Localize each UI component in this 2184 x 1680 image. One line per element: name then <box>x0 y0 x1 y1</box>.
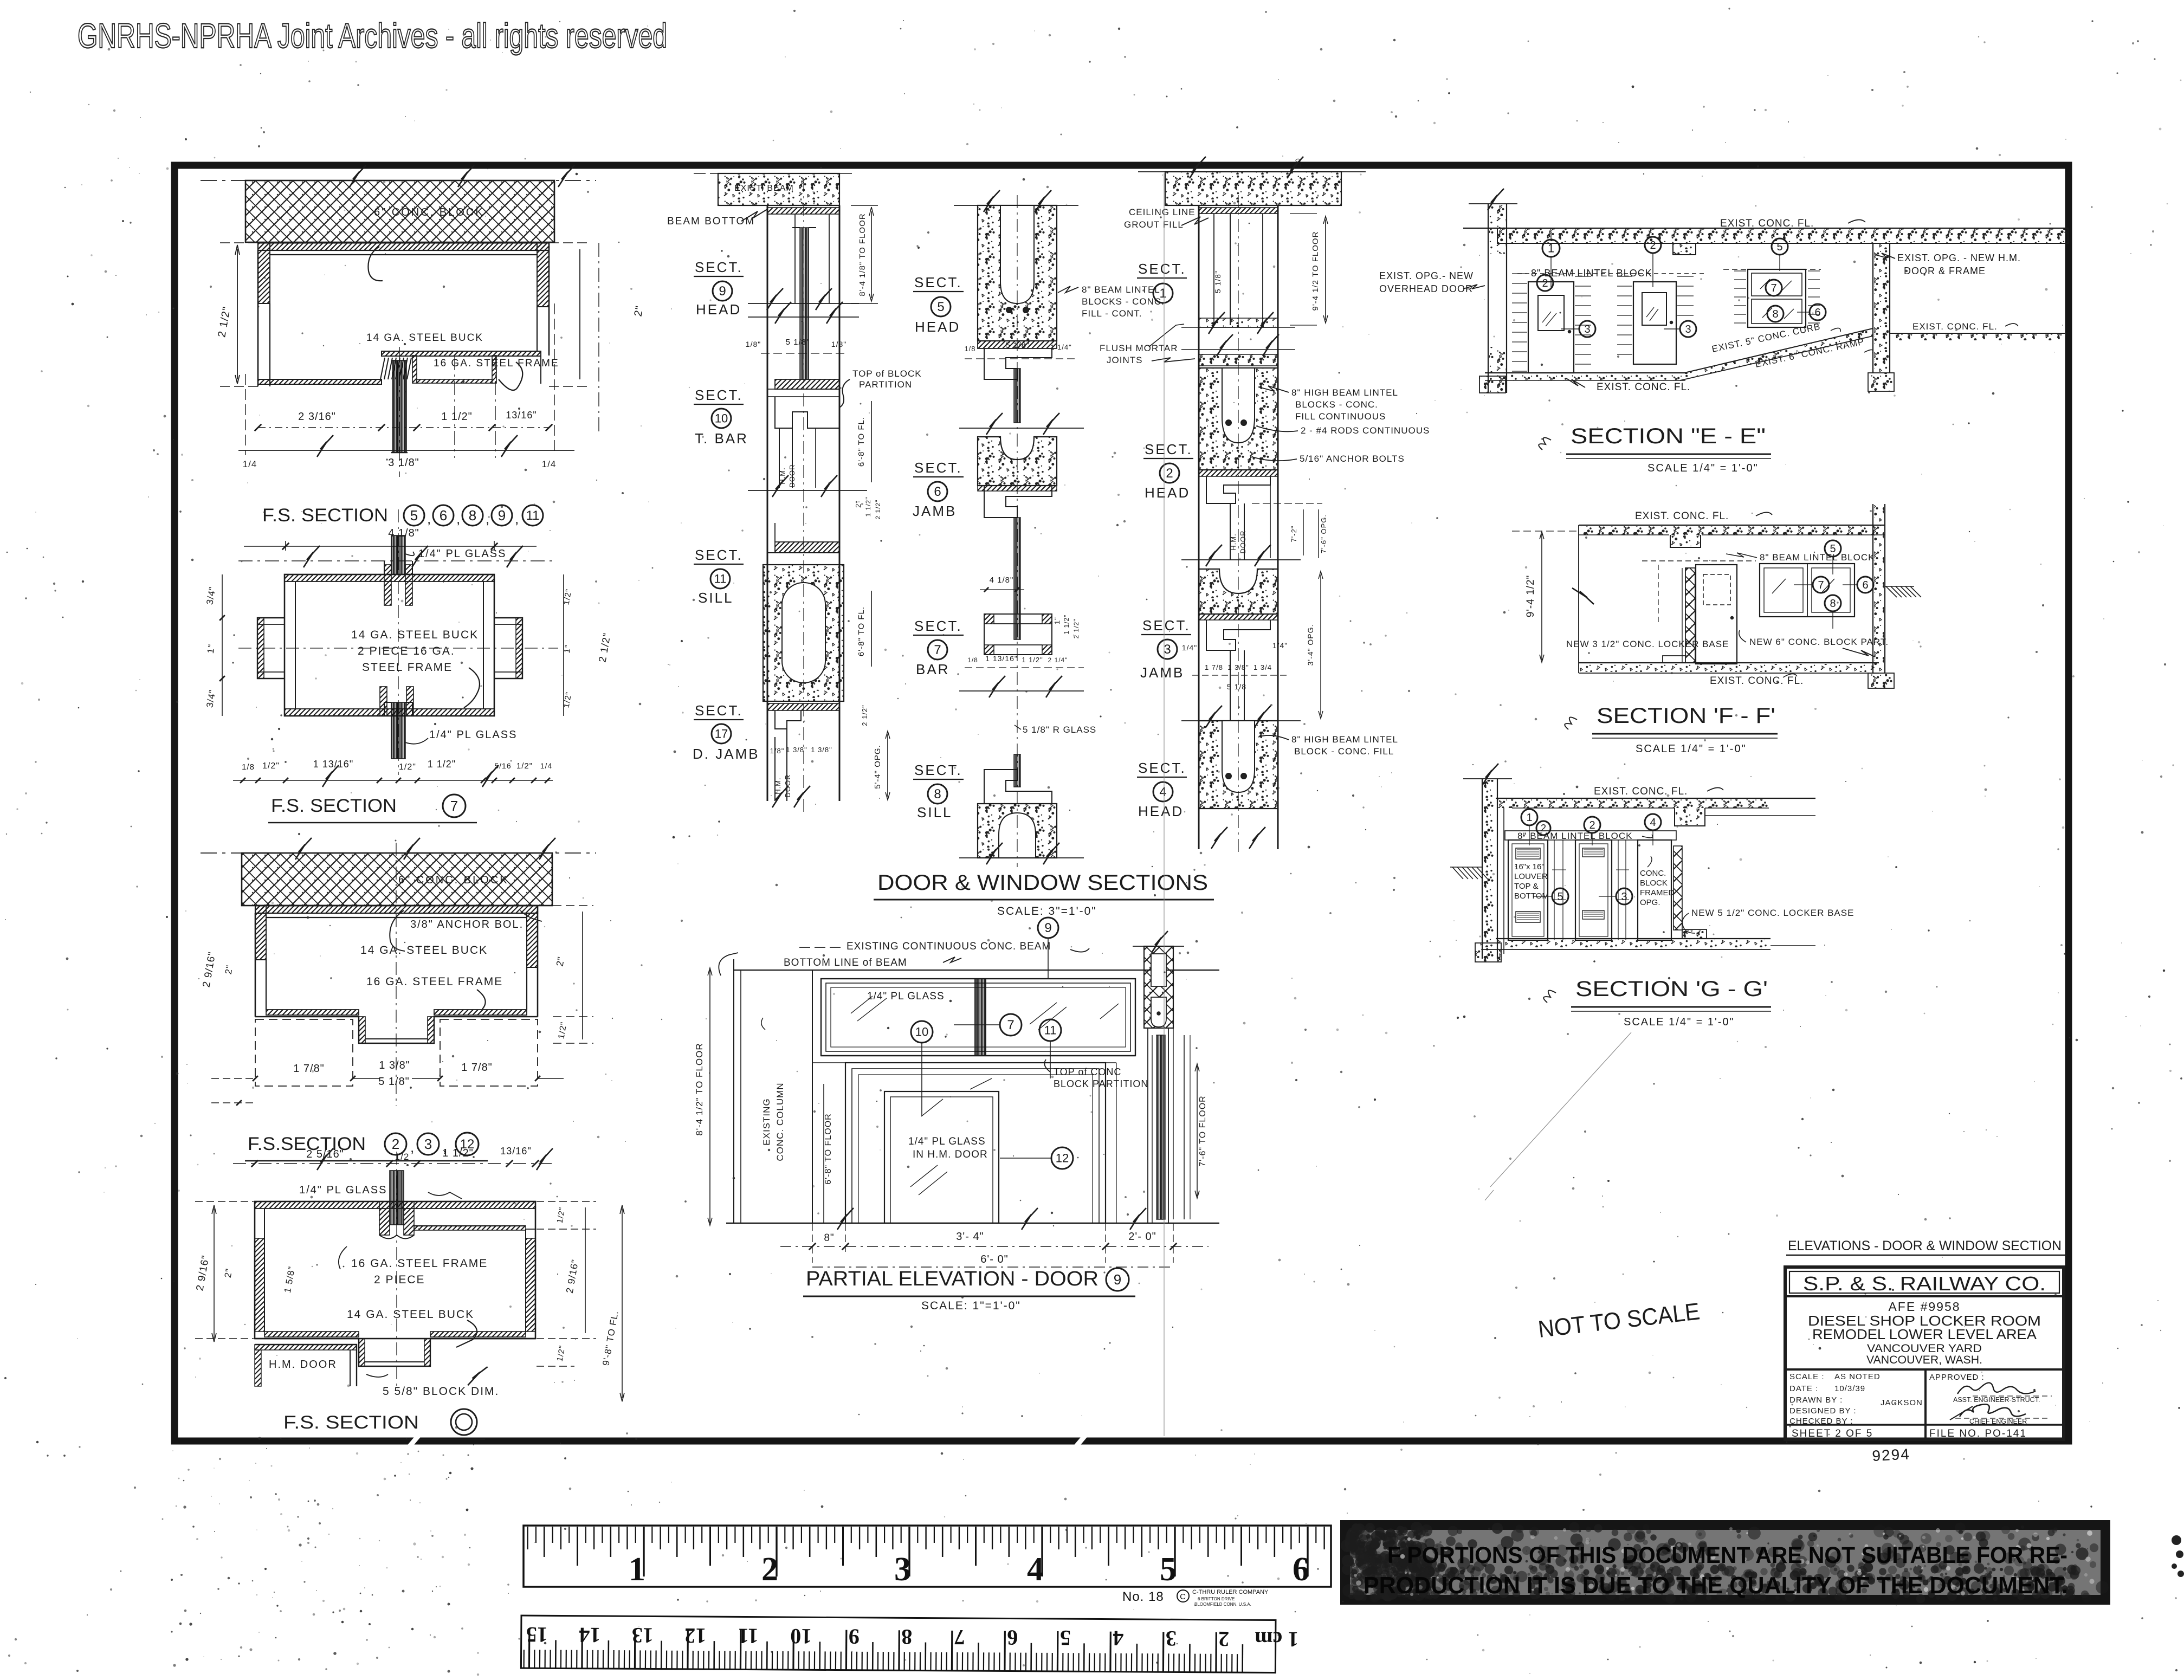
G-G door 2 <box>1575 840 1612 940</box>
detail 1 top dashed construction line <box>201 180 596 181</box>
svg-text:5/16" ANCHOR BOLTS: 5/16" ANCHOR BOLTS <box>1300 454 1405 464</box>
E-E window pair <box>1748 269 1806 327</box>
F-F door <box>1696 565 1737 664</box>
svg-text:2": 2" <box>632 305 646 318</box>
detail 1 dimension line 2 (block dim) <box>238 450 574 451</box>
svg-text:5 1/8": 5 1/8" <box>1006 341 1030 350</box>
strip2 centerline <box>1017 195 1018 867</box>
svg-text:4: 4 <box>1027 1551 1044 1588</box>
svg-text:4: 4 <box>1113 1626 1123 1651</box>
svg-text:S.P. & S. RAILWAY CO.: S.P. & S. RAILWAY CO. <box>1803 1272 2046 1295</box>
E-E door 2 <box>1633 282 1676 364</box>
svg-text:PARTITION: PARTITION <box>859 379 912 390</box>
G-G ceiling drop <box>1675 808 1705 826</box>
F-F right base <box>1868 673 1894 688</box>
svg-text:1/4: 1/4 <box>540 761 552 770</box>
F.S. Section 7 side tabs <box>257 618 285 679</box>
right jamb white slot <box>1151 954 1166 986</box>
svg-text:5 1/8": 5 1/8" <box>786 338 810 347</box>
svg-text:8: 8 <box>469 507 476 524</box>
svg-text:10: 10 <box>1294 158 1302 167</box>
svg-text:8: 8 <box>901 1625 912 1649</box>
svg-text:2: 2 <box>761 1551 778 1588</box>
partial elevation: right dim 7-6 <box>1197 1066 1198 1196</box>
svg-text:HEAD: HEAD <box>1145 484 1190 501</box>
svg-text:11: 11 <box>526 508 540 523</box>
svg-text:CEILING LINE: CEILING LINE <box>1129 207 1196 217</box>
F.S. Section 10 top glass mullion <box>390 1171 404 1225</box>
svg-text:DOOR & WINDOW SECTIONS: DOOR & WINDOW SECTIONS <box>877 871 1208 895</box>
svg-text:2": 2" <box>223 964 235 975</box>
strip3 hm door <box>1230 503 1231 560</box>
svg-text:1 1/2": 1 1/2" <box>441 411 473 423</box>
svg-text:1 13/16": 1 13/16" <box>985 654 1018 663</box>
svg-text:HEAD: HEAD <box>1138 803 1184 819</box>
svg-text:C: C <box>1180 1592 1186 1601</box>
svg-text:8" HIGH BEAM LINTEL: 8" HIGH BEAM LINTEL <box>1291 734 1398 745</box>
svg-text:7: 7 <box>1771 282 1776 294</box>
E-E window dashes <box>1734 270 1746 272</box>
svg-text:SECT.: SECT. <box>1138 261 1186 277</box>
E-E circled 7 <box>1766 280 1782 296</box>
strip2 glass bar upper <box>1014 369 1020 423</box>
detail 1 dimension line bottom <box>245 374 246 455</box>
svg-text:5: 5 <box>937 300 944 314</box>
detail 1 right vertical dim 2 <box>549 242 591 243</box>
svg-text:SECTION 'G - G': SECTION 'G - G' <box>1575 977 1768 1001</box>
svg-text:JACKSON: JACKSON <box>1881 1398 1923 1407</box>
svg-text:SECT.: SECT. <box>1138 760 1186 776</box>
svg-text:10: 10 <box>915 1025 928 1038</box>
E-E circled 6 <box>1810 304 1826 320</box>
F.S. Section 7 annotation 1/4 PL GLASS top <box>405 552 414 555</box>
F-F earth hatch <box>1886 586 1897 597</box>
E-E door 2 coursing <box>1617 276 1632 277</box>
F-F ceiling drop key <box>1670 535 1701 547</box>
svg-text:SCALE 1/4" = 1'-0": SCALE 1/4" = 1'-0" <box>1636 743 1747 755</box>
svg-text:16 GA. STEEL FRAME: 16 GA. STEEL FRAME <box>366 975 503 988</box>
svg-text:SECTION 'F - F': SECTION 'F - F' <box>1597 704 1775 728</box>
svg-text:DOOR: DOOR <box>1239 531 1247 554</box>
svg-text:ELEVATIONS - DOOR & WINDOW SEC: ELEVATIONS - DOOR & WINDOW SECTION <box>1788 1238 2062 1253</box>
strip2 hatched band below A <box>978 341 1057 348</box>
strip3 wall verticals <box>1198 205 1200 849</box>
svg-text:PRODUCTION IT IS DUE TO THE QU: PRODUCTION IT IS DUE TO THE QUALITY OF T… <box>1364 1572 2068 1599</box>
svg-text:3'-4" OPG.: 3'-4" OPG. <box>1306 624 1315 666</box>
svg-text:9: 9 <box>1044 921 1051 935</box>
svg-text:SECT.: SECT. <box>695 387 743 403</box>
svg-text:13/16": 13/16" <box>506 410 537 421</box>
detail 1 steel buck frame profile <box>258 243 549 250</box>
svg-text:EXIST. CONC. FL.: EXIST. CONC. FL. <box>1912 321 1998 332</box>
svg-text:16 GA. STEEL FRAME: 16 GA. STEEL FRAME <box>351 1257 488 1270</box>
svg-text:NEW 3 1/2" CONC. LOCKER BASE: NEW 3 1/2" CONC. LOCKER BASE <box>1566 639 1729 649</box>
svg-text:EXISTING: EXISTING <box>761 1098 772 1145</box>
svg-text:8: 8 <box>934 787 941 802</box>
svg-text:8": 8" <box>824 1232 834 1244</box>
svg-text:6: 6 <box>1007 1625 1018 1650</box>
svg-text:13/16": 13/16" <box>500 1146 531 1156</box>
svg-text:17: 17 <box>715 727 728 740</box>
E-E circled 3 door1 <box>1579 321 1595 337</box>
partial elevation: door frame <box>845 1063 1106 1223</box>
svg-text:5: 5 <box>1060 1626 1071 1650</box>
svg-text:8: 8 <box>1830 598 1836 610</box>
detail 1 inner step <box>412 356 417 383</box>
svg-text:11: 11 <box>738 1624 759 1648</box>
svg-text:3: 3 <box>424 1136 432 1152</box>
svg-text:6: 6 <box>440 507 447 524</box>
svg-text:1 7/8: 1 7/8 <box>1205 663 1223 671</box>
svg-text:BOTTOM: BOTTOM <box>1514 891 1549 901</box>
F-F floor slab <box>1579 662 1879 663</box>
svg-text:7: 7 <box>934 643 941 657</box>
svg-text:IN H.M. DOOR: IN H.M. DOOR <box>913 1149 988 1160</box>
svg-text:1/4" PL GLASS: 1/4" PL GLASS <box>429 729 517 741</box>
svg-text:6'-8" TO FL.: 6'-8" TO FL. <box>857 606 866 656</box>
svg-text:1 7/8": 1 7/8" <box>461 1062 493 1074</box>
svg-text:5/16: 5/16 <box>494 761 511 770</box>
svg-text:EXIST. CONC. FL.: EXIST. CONC. FL. <box>1710 675 1804 687</box>
svg-text:DRAWN BY :: DRAWN BY : <box>1789 1395 1843 1405</box>
svg-text:14 GA. STEEL BUCK: 14 GA. STEEL BUCK <box>351 629 479 641</box>
svg-text:1 1/2": 1 1/2" <box>442 1147 474 1159</box>
svg-text:8'-4 1/2" TO FLOOR: 8'-4 1/2" TO FLOOR <box>694 1043 705 1135</box>
svg-text:BLOOMFIELD CONN. U.S.A.: BLOOMFIELD CONN. U.S.A. <box>1194 1602 1251 1607</box>
svg-text:14 GA. STEEL BUCK: 14 GA. STEEL BUCK <box>366 332 483 344</box>
svg-text:H.M.: H.M. <box>1229 533 1237 550</box>
F-F door top dash <box>1642 560 1756 561</box>
F.S. Section 7 centerlines <box>398 509 399 775</box>
svg-text:6" CONC. BLOCK: 6" CONC. BLOCK <box>374 206 484 218</box>
svg-text:4: 4 <box>1650 817 1656 829</box>
svg-text:5 1/8": 5 1/8" <box>1213 270 1222 293</box>
svg-text:EXIST. CONC. FL.: EXIST. CONC. FL. <box>1720 218 1814 229</box>
F.S. Section 10 bottom band + center well <box>255 1339 535 1366</box>
svg-text:F.S. SECTION: F.S. SECTION <box>271 796 397 816</box>
strip2 break row 1 <box>959 428 1084 429</box>
F.S. Section 7 left dims <box>222 574 223 716</box>
svg-text:7: 7 <box>1818 579 1824 591</box>
F.S. Section 7 top dashed line <box>238 560 553 561</box>
strip1 T-bar section <box>775 379 839 389</box>
svg-text:JOINTS: JOINTS <box>1107 355 1142 365</box>
svg-text:2 PIECE 16 GA.: 2 PIECE 16 GA. <box>358 645 455 657</box>
svg-text:DOOR & FRAME: DOOR & FRAME <box>1904 266 1986 276</box>
E-E door 1 <box>1528 282 1574 373</box>
svg-text:SECT.: SECT. <box>695 702 743 719</box>
F.S. Section 10 frame body <box>255 1201 535 1339</box>
svg-text:3'- 4": 3'- 4" <box>956 1231 984 1243</box>
svg-text:1 3/4: 1 3/4 <box>1253 663 1272 671</box>
signature 2 <box>1960 1404 2026 1417</box>
strip3 jamb frame <box>1199 614 1278 620</box>
strip3 arch block <box>1199 569 1278 614</box>
svg-text:OPG.: OPG. <box>1640 898 1660 907</box>
strip1 right dims <box>851 205 878 206</box>
svg-text:1/4": 1/4" <box>1182 643 1197 652</box>
title block divider <box>1785 1368 2064 1371</box>
svg-text:No. 18: No. 18 <box>1122 1589 1164 1604</box>
svg-text:T. BAR: T. BAR <box>695 430 748 447</box>
svg-text:2: 2 <box>1650 240 1656 251</box>
G-G opening 3 <box>1638 840 1671 940</box>
F.S. Section 10 left dims <box>214 1209 215 1339</box>
svg-text:VANCOUVER, WASH.: VANCOUVER, WASH. <box>1866 1354 1982 1366</box>
detail 1 centerlines <box>399 347 400 477</box>
strip1 head glass <box>800 228 809 379</box>
svg-text:6'- 0": 6'- 0" <box>980 1253 1008 1265</box>
svg-text:APPROVED :: APPROVED : <box>1929 1373 1985 1382</box>
detail 1 annotation 14 GA STEEL BUCK <box>368 247 383 281</box>
svg-text:5: 5 <box>1160 1551 1177 1588</box>
partial elevation: floor line <box>726 1223 1219 1224</box>
svg-text:HEAD: HEAD <box>696 301 741 318</box>
svg-text:14 GA. STEEL BUCK: 14 GA. STEEL BUCK <box>360 944 488 957</box>
svg-text:5 1/8" R GLASS: 5 1/8" R GLASS <box>1023 725 1096 735</box>
svg-text:1": 1" <box>563 644 573 654</box>
svg-text:JAMB: JAMB <box>913 503 957 519</box>
G-G lintel band <box>1505 831 1676 840</box>
svg-text:2": 2" <box>223 1268 235 1279</box>
G-G louver door 1 <box>1508 840 1548 940</box>
svg-text:BLOCK: BLOCK <box>1640 878 1668 888</box>
svg-text:1: 1 <box>1548 241 1554 255</box>
svg-text:TOP of CONC: TOP of CONC <box>1054 1067 1121 1077</box>
svg-text:EXIST. CONC. FL.: EXIST. CONC. FL. <box>1635 511 1729 522</box>
transom glass slashes <box>851 996 873 1013</box>
svg-text:HEAD: HEAD <box>915 319 960 335</box>
strip3 centerline <box>1238 195 1239 856</box>
transom mullion <box>975 979 986 1056</box>
svg-text:9294: 9294 <box>1872 1445 1911 1464</box>
strip1 break row <box>748 490 867 491</box>
svg-text:BLOCK PARTITION: BLOCK PARTITION <box>1054 1078 1148 1089</box>
svg-text:1 3/8": 1 3/8" <box>786 746 807 754</box>
partial elevation: left dims <box>709 970 710 1223</box>
svg-text:2": 2" <box>554 955 567 967</box>
svg-text:13: 13 <box>632 1623 654 1647</box>
E-E right wall base <box>1868 373 1894 391</box>
reproduction quality stamp <box>1341 1522 2109 1604</box>
F.S. Section 7 lower glass mullion <box>384 702 391 716</box>
svg-text:7'-6" TO FLOOR: 7'-6" TO FLOOR <box>1198 1095 1207 1167</box>
svg-text:DATE :: DATE : <box>1789 1384 1818 1393</box>
partial elevation: circled 7 <box>1000 1014 1022 1036</box>
strip1 centerline <box>803 179 804 813</box>
svg-text:4: 4 <box>1159 785 1166 799</box>
svg-text:SECT.: SECT. <box>1142 617 1191 634</box>
F.S. Section 7 annotation 1/4 PL GLASS bottom <box>405 738 428 744</box>
svg-text:STEEL FRAME: STEEL FRAME <box>362 661 453 674</box>
svg-text:FILL CONTINUOUS: FILL CONTINUOUS <box>1295 411 1386 422</box>
partial elevation: circled 12 <box>1051 1147 1073 1169</box>
svg-text:3 1/8": 3 1/8" <box>388 457 419 469</box>
strip1 wall verticals <box>767 205 768 801</box>
right jamb crosshatch block <box>1144 946 1173 1028</box>
border break artifact <box>405 1431 423 1451</box>
svg-text:5: 5 <box>1557 891 1563 903</box>
svg-text:2: 2 <box>392 1136 399 1152</box>
partial elevation: wall under transom <box>821 1055 1135 1056</box>
svg-text:BAR: BAR <box>916 661 949 677</box>
svg-text:SCALE :: SCALE : <box>1789 1372 1825 1381</box>
G-G left base <box>1475 943 1501 962</box>
E-E ceiling drop key <box>1673 243 1696 255</box>
svg-text:SECT.: SECT. <box>1145 441 1193 457</box>
svg-text:1 3/8": 1 3/8" <box>811 746 832 754</box>
svg-text:4 1/8": 4 1/8" <box>990 576 1014 585</box>
right side wall lines <box>1105 1063 1106 1223</box>
svg-text:AFE #9958: AFE #9958 <box>1888 1300 1960 1314</box>
F.S. Section 2,3,12 conc block <box>242 853 552 906</box>
svg-text:1/4": 1/4" <box>1272 641 1288 650</box>
svg-text:SECT.: SECT. <box>914 762 962 778</box>
title block company row <box>1785 1295 2064 1297</box>
svg-text:EXIST. OPG. - NEW H.M.: EXIST. OPG. - NEW H.M. <box>1897 253 2021 263</box>
svg-text:FILL - CONT.: FILL - CONT. <box>1082 308 1142 319</box>
strip2 long glass bar <box>1014 518 1020 639</box>
svg-text:1 1/2": 1 1/2" <box>428 759 456 770</box>
svg-text:,: , <box>410 1139 415 1155</box>
strip2 jamb block B half-round <box>978 437 1057 486</box>
svg-text:SCALE: 3"=1'-0": SCALE: 3"=1'-0" <box>997 905 1097 917</box>
svg-text:OVERHEAD DOOR: OVERHEAD DOOR <box>1379 283 1473 294</box>
svg-text:1 1/2": 1 1/2" <box>864 497 872 517</box>
svg-text:GROUT FILL: GROUT FILL <box>1124 219 1184 230</box>
svg-text:10: 10 <box>715 411 728 425</box>
svg-text:2 1/2": 2 1/2" <box>874 500 882 520</box>
drawing sheet border frame <box>175 165 2069 1441</box>
svg-text:1/8": 1/8" <box>770 747 785 755</box>
strip1 conc block with oval core <box>763 565 844 701</box>
svg-text:PARTIAL ELEVATION - DOOR: PARTIAL ELEVATION - DOOR <box>806 1268 1099 1290</box>
svg-text:GNRHS-NPRHA Joint Archives - a: GNRHS-NPRHA Joint Archives - all rights … <box>77 16 667 55</box>
svg-text:2: 2 <box>1589 819 1595 831</box>
svg-text:1: 1 <box>629 1551 645 1588</box>
partial elevation: circled 11 <box>1039 1019 1061 1041</box>
svg-text:14: 14 <box>579 1623 600 1647</box>
svg-text:SCALE 1/4" = 1'-0": SCALE 1/4" = 1'-0" <box>1647 462 1759 474</box>
svg-text:6 BRITTON DRIVE: 6 BRITTON DRIVE <box>1198 1597 1235 1601</box>
svg-text:SECTION "E - E": SECTION "E - E" <box>1571 424 1766 448</box>
F.S. Section 10 inner shelf right of mullion <box>414 1225 526 1226</box>
svg-text:5: 5 <box>410 507 418 524</box>
svg-text:1/8: 1/8 <box>967 656 978 664</box>
svg-text:8" BEAM LINTEL BLOCK: 8" BEAM LINTEL BLOCK <box>1760 552 1875 563</box>
svg-text:8" HIGH BEAM LINTEL: 8" HIGH BEAM LINTEL <box>1291 387 1398 398</box>
svg-text:SECT.: SECT. <box>914 460 962 476</box>
svg-text:1": 1" <box>205 643 217 655</box>
svg-text:1/8: 1/8 <box>964 345 975 353</box>
svg-text:SCALE 1/4" = 1'-0": SCALE 1/4" = 1'-0" <box>1624 1016 1735 1028</box>
svg-text:REMODEL LOWER LEVEL AREA: REMODEL LOWER LEVEL AREA <box>1812 1326 2037 1342</box>
svg-text:ASST. ENGINEER-STRUCT.: ASST. ENGINEER-STRUCT. <box>1953 1396 2040 1404</box>
svg-text:2 3/16": 2 3/16" <box>298 411 336 423</box>
F-F right wall <box>1872 504 1873 673</box>
svg-text:7: 7 <box>1007 1018 1014 1032</box>
svg-text:EXIST. CONC. FL.: EXIST. CONC. FL. <box>1597 382 1690 393</box>
svg-text:SCALE: 1"=1'-0": SCALE: 1"=1'-0" <box>921 1300 1021 1312</box>
svg-text:H.M. DOOR: H.M. DOOR <box>269 1359 337 1371</box>
svg-text:11: 11 <box>714 572 727 585</box>
strip1 D jamb section <box>767 703 839 710</box>
inch ruler body <box>524 1526 1331 1587</box>
svg-text:1 1/2": 1 1/2" <box>1022 656 1043 664</box>
F-F left edge line <box>1578 525 1579 673</box>
svg-text:,: , <box>456 511 461 527</box>
F.S. Section 5,6,8,9,11 : 6in conc block crosshatched <box>245 180 554 242</box>
svg-text:3: 3 <box>1166 1626 1177 1651</box>
svg-text:1": 1" <box>1053 617 1061 624</box>
svg-text:SILL: SILL <box>917 804 953 820</box>
svg-text:5: 5 <box>1830 543 1836 555</box>
F.S. Section 7 frame body <box>285 574 494 716</box>
svg-text:SILL: SILL <box>698 590 734 606</box>
svg-text:CONC. COLUMN: CONC. COLUMN <box>775 1082 785 1161</box>
svg-text:6'-8" TO FLOOR: 6'-8" TO FLOOR <box>824 1113 833 1185</box>
svg-text:AS NOTED: AS NOTED <box>1834 1372 1881 1381</box>
svg-text:D. JAMB: D. JAMB <box>693 746 760 762</box>
G-G ceiling slab <box>1496 798 1815 799</box>
svg-text:SECT.: SECT. <box>695 547 743 563</box>
svg-text:CONC.: CONC. <box>1640 869 1666 878</box>
F.S. Section 2,3,12 annotations <box>520 910 542 921</box>
strip2 annotation 8in beam lintel <box>1058 286 1078 293</box>
E-E left wall base <box>1479 376 1505 393</box>
strip2 jamb frame section <box>984 486 1052 518</box>
svg-text:1 1/2": 1 1/2" <box>1063 615 1070 635</box>
G-G circles row <box>1521 809 1537 825</box>
svg-text:2: 2 <box>1541 823 1546 833</box>
svg-text:SECT.: SECT. <box>914 274 962 290</box>
E-E floor right of wall <box>1890 333 2065 334</box>
partial elevation: circled 10 <box>911 1021 933 1043</box>
svg-text:SHEET 2 OF 5: SHEET 2 OF 5 <box>1792 1428 1873 1439</box>
strip3 head frame <box>1199 470 1278 476</box>
svg-text:8" BEAM LINTEL: 8" BEAM LINTEL <box>1082 285 1160 295</box>
svg-text:1 cm: 1 cm <box>1255 1627 1298 1651</box>
E-E right wall <box>1872 243 1873 373</box>
svg-text:2'- 0": 2'- 0" <box>1128 1231 1156 1243</box>
detail 1 center mullion with glass <box>380 358 411 379</box>
svg-text:SECT.: SECT. <box>914 618 962 634</box>
svg-text:DESIGNED BY :: DESIGNED BY : <box>1789 1406 1857 1416</box>
G-G wall joints between doors <box>1554 840 1555 940</box>
F.S. Section 10 right dims <box>537 1201 596 1202</box>
G-G left wall column <box>1482 779 1483 959</box>
svg-text:9: 9 <box>1114 1271 1121 1288</box>
G-G floor slab <box>1496 938 1771 939</box>
svg-text:FRAMED: FRAMED <box>1640 888 1675 897</box>
svg-text:9'-4 1/2": 9'-4 1/2" <box>1525 575 1536 618</box>
F.S. Section 10 centerline <box>396 1152 397 1387</box>
svg-text:TOP of BLOCK: TOP of BLOCK <box>852 369 922 379</box>
F.S. Section 7 upper glass mullion <box>391 535 405 574</box>
E-E floor left <box>1485 372 1685 373</box>
svg-text:1/2: 1/2 <box>395 1152 410 1162</box>
F.S. Section 2,3,12 bottom step <box>255 1017 538 1043</box>
signature 1 <box>1957 1382 2036 1394</box>
svg-text:5 1/8": 5 1/8" <box>378 1076 410 1088</box>
svg-text:VANCOUVER YARD: VANCOUVER YARD <box>1867 1342 1982 1355</box>
svg-text:1/4: 1/4 <box>243 459 257 469</box>
svg-text:5: 5 <box>1776 241 1782 253</box>
F-F circles <box>1825 540 1841 557</box>
strip3 right dims <box>1290 213 1317 214</box>
E-E circled 2 door2 <box>1645 237 1661 253</box>
svg-text:1/8": 1/8" <box>746 340 761 348</box>
